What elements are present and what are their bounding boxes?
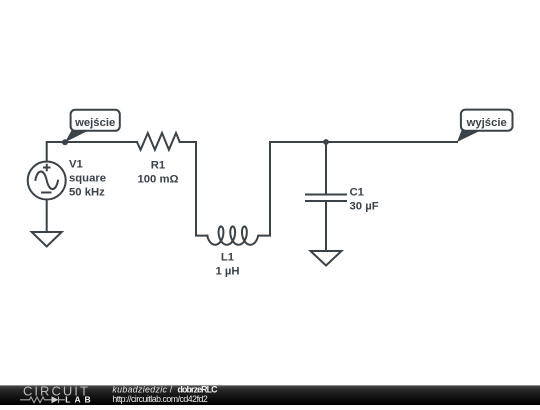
wire	[180, 142, 208, 236]
svg-text:square: square	[69, 173, 106, 185]
wire	[47, 142, 137, 161]
capacitor C1	[306, 194, 346, 196]
svg-text:50 kHz: 50 kHz	[69, 187, 105, 199]
node wyjscie junction dot (C1 tap)	[323, 139, 329, 145]
inductor L1	[207, 226, 258, 244]
svg-text:http://circuitlab.com/cd42fd2: http://circuitlab.com/cd42fd2	[112, 394, 207, 404]
ground (C1)	[311, 251, 342, 266]
voltage source V1	[28, 162, 66, 200]
capacitor C1 wire top	[325, 142, 327, 195]
logo resistor-diode	[20, 396, 65, 403]
svg-text:C1: C1	[350, 187, 364, 199]
svg-text:wyjście: wyjście	[466, 117, 507, 129]
svg-text:wejście: wejście	[74, 117, 115, 129]
svg-text:LAB: LAB	[65, 395, 90, 405]
svg-text:1 µH: 1 µH	[215, 266, 239, 278]
svg-text:100 mΩ: 100 mΩ	[137, 173, 178, 185]
svg-text:30 µF: 30 µF	[350, 201, 379, 213]
flag wejscie	[65, 110, 120, 143]
svg-text:L1: L1	[221, 252, 234, 264]
wire	[325, 201, 327, 251]
resistor R1	[137, 133, 180, 150]
svg-text:V1: V1	[69, 159, 83, 171]
node wejscie junction dot	[62, 139, 68, 145]
ground (V1)	[32, 232, 62, 247]
wire	[258, 142, 457, 236]
wire	[46, 200, 48, 233]
flag wyjscie	[457, 110, 513, 142]
svg-text:R1: R1	[151, 159, 165, 171]
